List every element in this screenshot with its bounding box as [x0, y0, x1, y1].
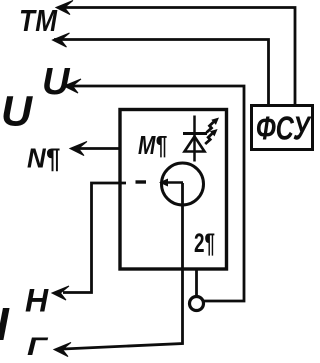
phototransistor base arrow blob: [159, 179, 168, 187]
phototransistor circle Q1: [162, 163, 204, 205]
arrowhead H: [52, 286, 69, 300]
wire emitter lead to G output: [63, 183, 183, 349]
arrowhead TM: [56, 1, 73, 15]
arrowhead U: [64, 79, 81, 93]
svg-text:М¶: М¶: [138, 130, 167, 160]
svg-text:Н: Н: [25, 283, 49, 319]
svg-text:I: I: [0, 298, 10, 350]
svg-text:Г: Г: [27, 333, 49, 361]
arrowhead G: [54, 343, 71, 357]
phototransistor base line: [161, 181, 183, 184]
svg-text:U: U: [1, 88, 33, 136]
wire N output: [72, 147, 121, 150]
svg-text:N¶: N¶: [27, 143, 60, 174]
arrowhead second output: [53, 33, 70, 47]
optocoupler box U1: [120, 110, 227, 270]
wire TM output (top): [58, 8, 295, 106]
wire minus lead to H output: [63, 183, 126, 293]
node circle (open terminal): [190, 297, 204, 311]
svg-text:U: U: [42, 61, 71, 103]
LED emission arrow lower: [205, 134, 212, 145]
svg-text:ФСУ: ФСУ: [256, 110, 312, 147]
arrowhead N: [70, 142, 87, 156]
wire U output to node: [66, 86, 244, 301]
minus sign: [136, 180, 147, 183]
wire second output: [54, 40, 269, 106]
LED emission arrow upper: [207, 122, 214, 133]
FSU box: [252, 106, 313, 150]
LED D1 triangle: [185, 137, 205, 152]
svg-text:ТМ: ТМ: [19, 3, 58, 38]
LED D1 vertical lead: [193, 116, 196, 162]
LED D1 cathode bar: [183, 132, 207, 135]
svg-text:2¶: 2¶: [194, 228, 215, 258]
wire stub to node circle: [195, 268, 198, 297]
